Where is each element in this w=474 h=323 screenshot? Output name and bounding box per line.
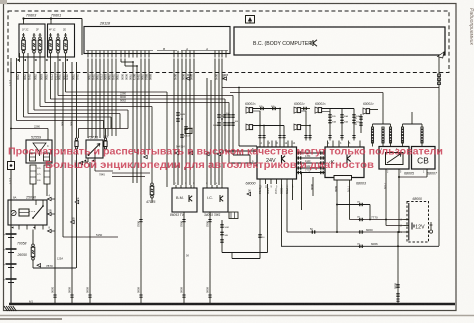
wire from fuse column x=28 <box>27 62 29 114</box>
relay coil <box>19 209 29 216</box>
service connector column left of radio drops <box>221 220 223 253</box>
arrow connector 06 below radio <box>247 192 251 195</box>
wire from fuse column x=40 <box>39 62 41 107</box>
speaker RL <box>318 108 321 113</box>
scan bottom edge line <box>0 315 474 317</box>
stub 9000 below jumpers <box>312 177 314 196</box>
connector box 28118 <box>84 27 230 54</box>
jogged wires from 28118 <box>120 59 122 63</box>
I.C. ground drop <box>209 212 211 304</box>
connector chains feeding radio 68003 <box>329 109 331 135</box>
connector ticks on ground drops <box>139 219 142 221</box>
speaker RL wiring to connector chains <box>322 108 354 110</box>
switch bottom connectors <box>84 159 86 161</box>
op-amp triangle in 52559 <box>33 143 46 152</box>
accessory socket dashed box 68000 right <box>407 202 429 243</box>
fuse F4 in 70601 <box>49 37 52 40</box>
speaker FL wiring <box>253 108 281 110</box>
amplifier bottom pins <box>385 169 387 220</box>
box B.C. body computer <box>234 27 445 55</box>
deck drop 7770 <box>349 180 351 220</box>
speaker FL top <box>249 108 252 113</box>
speaker FL pin row <box>259 134 261 141</box>
inline fuse 47176 <box>151 183 154 186</box>
jumper column to lower bus <box>301 173 303 211</box>
wire from fuse column x=45 <box>44 62 46 103</box>
ground bus bar <box>9 303 455 305</box>
short drops 28118 with end arrows <box>144 59 146 156</box>
radio bottom drops <box>259 184 261 259</box>
long drop wire 28118 pin to ground <box>140 59 142 305</box>
drop from socket area to ground <box>397 232 399 304</box>
dashed enclosure box (supply section) <box>8 11 449 73</box>
speaker RR <box>366 109 369 114</box>
B.M. ground drop <box>183 212 185 304</box>
fuse F6 in 70601 <box>64 37 67 40</box>
top-left scan blemish <box>0 0 7 4</box>
wire from fuse column x=16.5 <box>16 62 18 121</box>
I.C. top pin ticks <box>206 185 208 188</box>
connector marks on 6060 line <box>311 230 313 233</box>
pill element right of switch <box>104 138 106 140</box>
B.C. output wire down right side <box>438 57 440 88</box>
fuse 70058 on relay output <box>32 230 34 245</box>
pin ticks under fuseboxes <box>19 53 21 62</box>
connector icon above B.C. box <box>246 16 255 24</box>
relay box 25050 <box>8 200 47 225</box>
speaker FR bottom <box>297 125 300 130</box>
pill element left of switch <box>75 138 77 140</box>
wire from fuse column x=65.5 <box>65 62 67 92</box>
wire from fuse column x=50.5 <box>50 62 52 99</box>
svg-text:Просматривать и распечатывать: Просматривать и распечатывать в высоком … <box>8 146 443 157</box>
wire drops from 28118 mid pins <box>107 59 109 137</box>
junction box 61103 <box>185 129 192 134</box>
wire from fuse column x=58 <box>57 62 59 96</box>
B.M. unit box 86053 <box>172 188 197 212</box>
wire from fuse column x=23.5 <box>23 62 25 117</box>
speaker FR wiring <box>301 108 310 110</box>
radio bottom pins <box>259 179 261 184</box>
wire from fuse column x=34 <box>33 62 35 110</box>
feed wire to amplifier 68005 <box>230 92 383 94</box>
pin strip sections under 28118 <box>86 50 153 52</box>
fuse F3 in 70603 <box>39 37 42 40</box>
switch feed loop top <box>79 128 129 130</box>
ground hatching at bus left end <box>4 306 8 311</box>
radio top pins <box>259 141 261 148</box>
feed rail x63 <box>62 62 64 237</box>
speaker FR pin row <box>305 134 307 141</box>
relay contact <box>32 217 34 219</box>
long feed wire 8850 to CB column <box>222 87 439 89</box>
12V label with battery glyph <box>412 223 414 230</box>
inline arrow connectors above B.M. <box>175 151 179 154</box>
step wire to radio pin 9 <box>222 252 268 254</box>
feed rail x55 long to ground <box>54 62 56 304</box>
speaker FR top <box>297 108 300 113</box>
aux connector box right of I.C. <box>229 212 238 219</box>
diode-style connector 904 <box>186 77 190 80</box>
switch bottom drops <box>89 162 91 304</box>
watermark line 1 <box>8 146 443 171</box>
arrow terminal at B.C. pin bottom-right <box>438 52 445 58</box>
wire from supply to box 28118 area <box>81 19 83 56</box>
deck drop 6060 to socket line <box>336 180 338 232</box>
pin ticks under 28118 <box>87 51 89 58</box>
deck bottom connector <box>334 176 352 181</box>
supply wire across fusebox tops <box>24 18 83 20</box>
relay coil to contact dashed link <box>29 211 36 213</box>
wire 7770 into socket pin3 <box>350 219 404 221</box>
wire drops from 28118 strip3 to I.C. unit <box>214 59 216 186</box>
twisted pair bracket to amplifier 68005 <box>373 123 391 125</box>
fusebox 70603 <box>19 24 45 57</box>
connector strips inside 52559 <box>30 153 36 161</box>
connector plates on I.C. feed wires <box>217 114 220 116</box>
branch wire 204.5 <box>337 204 370 206</box>
twisted pair bracket to CB set <box>403 123 423 125</box>
deck top pins <box>327 141 329 148</box>
K symbol after B.C. label <box>311 40 317 46</box>
diode-style connector 905 <box>223 77 227 80</box>
wire 7870 from fuse to lighting rail <box>32 260 34 268</box>
fuse F5 in 70601 <box>57 37 60 40</box>
svg-text:Радиоприемник: Радиоприемник <box>468 8 474 45</box>
arrow connector on rail x55 low <box>48 229 52 232</box>
socket pins <box>404 219 409 221</box>
wires from 52559 to relay 25050 <box>32 184 34 200</box>
radio unit box 68000 <box>257 147 297 179</box>
left edge wire of speaker section <box>238 88 240 147</box>
speaker RR connector chain <box>360 114 362 133</box>
antenna amplifier box 68005 <box>379 147 409 170</box>
inline connector on left rail <box>8 162 15 170</box>
I.C. unit box 34003 <box>203 188 228 212</box>
connector flags under fuseboxes <box>17 59 19 61</box>
fusebox 70601 <box>48 24 75 57</box>
radio-to-deck jumper wires <box>297 152 326 154</box>
wire 2280 into amplifier 52559 <box>10 128 12 130</box>
feed rail drop x72 to ground <box>71 147 73 304</box>
CB transceiver box 68007 <box>412 147 436 170</box>
amplifier unit box 52559 <box>26 140 52 163</box>
wire 6060 into socket pin1 <box>287 231 404 233</box>
relay bottom pins <box>10 225 12 230</box>
wire drops from 28118 strip2 to B.M. unit <box>173 59 175 186</box>
feed rail drop x76 to lighting wire <box>76 149 78 268</box>
B.M. top pin ticks <box>175 185 177 188</box>
shield chains into CB <box>401 127 403 129</box>
fuse F1 in 70603 <box>22 37 25 40</box>
shield marks on B.C. output wire <box>438 74 441 77</box>
connector plates on B.M. feed wires <box>176 112 179 114</box>
cassette deck box 68003 <box>325 147 364 178</box>
wire from amp pin into socket pin2 <box>385 220 387 226</box>
radio left-pin feed bends <box>225 150 257 152</box>
switch blade symbol <box>88 154 90 156</box>
fuse F2 in 70603 <box>33 37 36 40</box>
relay motor symbol <box>11 210 16 215</box>
speaker FL bottom <box>249 125 252 130</box>
connector plates on radio feed drops <box>223 114 226 116</box>
wire 6066 long return <box>281 245 439 247</box>
connector strips below 52559 <box>30 165 36 184</box>
wire drops from 28118 to switch 75713 <box>87 59 89 139</box>
CB bottom pin to junction <box>426 169 428 177</box>
speaker RR wiring to bracket <box>370 109 378 111</box>
shield chains into 68005 <box>371 127 373 129</box>
switch box 75713 <box>86 140 103 158</box>
svg-text:Большой энциклопедии для автоэ: Большой энциклопедии для автоэлектриков … <box>45 160 374 171</box>
wire left rail to battery <box>10 62 12 233</box>
tap arrows on rail x55 <box>48 197 52 200</box>
